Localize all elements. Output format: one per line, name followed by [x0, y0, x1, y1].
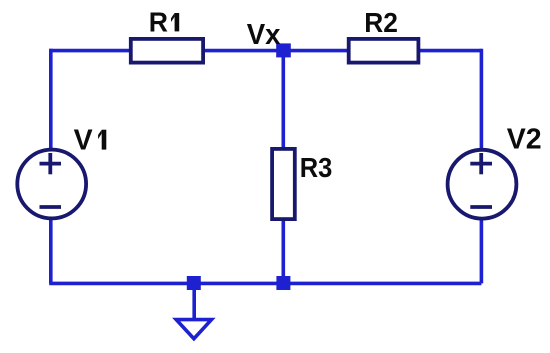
resistor R3: [272, 149, 295, 219]
svg-text:V: V: [74, 125, 93, 157]
junction R3-bottom square: [276, 276, 290, 290]
junction ground-node square: [187, 276, 201, 290]
svg-text:Vx: Vx: [247, 19, 281, 50]
wire bottom horizontal (ground rail): [49, 282, 481, 286]
wire ground stub: [192, 283, 196, 319]
wire right vertical: [480, 49, 484, 284]
voltage source V1: [17, 150, 86, 219]
label V1: [74, 125, 107, 157]
wire left vertical: [49, 49, 53, 284]
resistor R1: [131, 39, 203, 63]
node Vx junction square: [276, 43, 291, 57]
svg-text:V2: V2: [507, 124, 542, 156]
resistor R2: [349, 39, 419, 63]
wire top horizontal (node Vx rail): [50, 49, 482, 53]
svg-text:R: R: [149, 6, 168, 38]
wire middle vertical (Vx to R3 to ground rail): [281, 51, 285, 284]
svg-text:R2: R2: [364, 6, 398, 38]
label R1: [149, 6, 179, 38]
svg-text:R3: R3: [300, 152, 333, 183]
ground: [176, 320, 211, 339]
voltage source V2: [448, 150, 517, 219]
